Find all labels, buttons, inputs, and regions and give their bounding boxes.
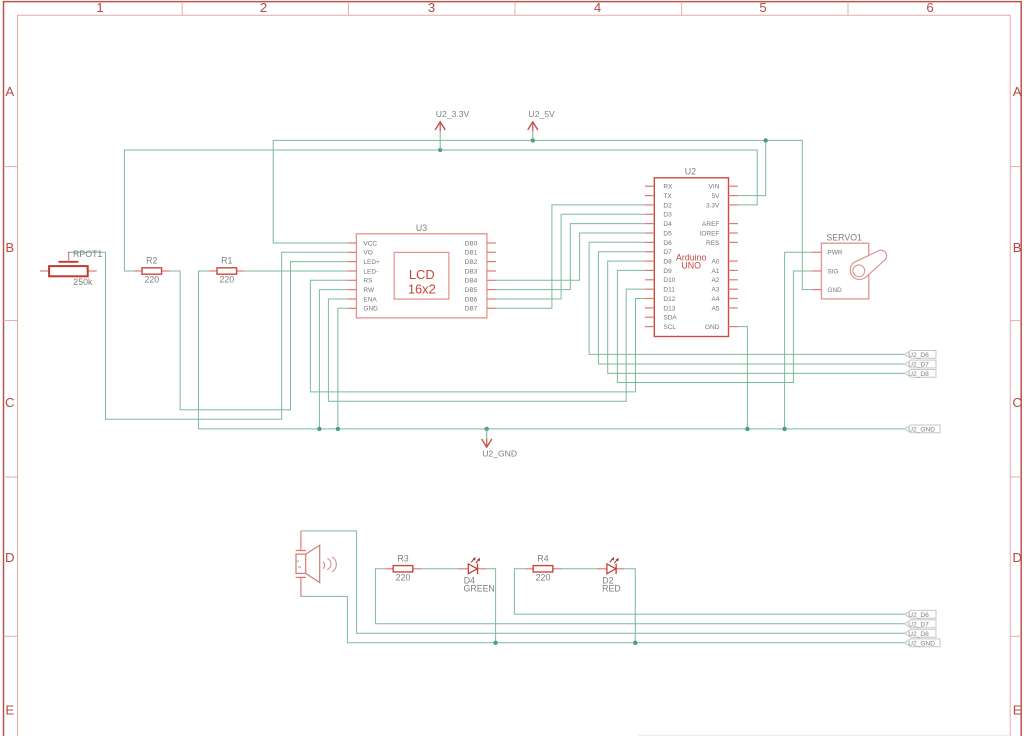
svg-text:U2_D8: U2_D8	[908, 371, 929, 378]
svg-text:D: D	[5, 550, 15, 565]
svg-text:A1: A1	[711, 268, 719, 275]
wire 5V bus with VCC branch and servo GND drop	[273, 140, 812, 289]
wire RPOT1 wiper to LCD VO	[72, 252, 348, 419]
wire R4 to D2 anode	[561, 568, 597, 570]
svg-text:D13: D13	[663, 305, 675, 312]
svg-text:U2_D7: U2_D7	[908, 362, 929, 369]
svg-text:U2_D8: U2_D8	[908, 631, 929, 638]
svg-text:U2_3.3V: U2_3.3V	[436, 109, 470, 119]
svg-text:A: A	[1013, 84, 1022, 99]
svg-text:DB0: DB0	[465, 240, 478, 247]
wire LCD ENA to U2 D11	[328, 289, 645, 401]
svg-text:D12: D12	[663, 296, 675, 303]
svg-text:DB7: DB7	[465, 306, 478, 313]
svg-text:R4: R4	[537, 554, 548, 564]
wire SERVO1 PWR to GND bus	[785, 252, 813, 429]
wire LCD RS to U2 D12	[310, 280, 645, 392]
wire R3 to D4 anode	[421, 568, 458, 570]
svg-text:GND: GND	[363, 306, 378, 313]
svg-text:220: 220	[536, 573, 551, 583]
net flag U2_D7 (lower)	[905, 620, 936, 628]
servo SERVO1	[812, 232, 886, 299]
svg-text:R3: R3	[397, 554, 408, 564]
wire LCD DB7 to U2 D2	[496, 205, 645, 308]
svg-text:DB6: DB6	[465, 296, 478, 303]
svg-text:E: E	[1013, 702, 1022, 717]
svg-text:LED-: LED-	[363, 268, 378, 275]
wire U2 D9 to SERVO1 SIG	[617, 270, 812, 382]
svg-text:U2_D6: U2_D6	[908, 612, 929, 619]
svg-text:VO: VO	[363, 250, 372, 257]
svg-text:LED+: LED+	[363, 259, 380, 266]
Arduino UNO U2	[645, 166, 738, 336]
junction at (747.4,428.9)	[745, 427, 749, 431]
svg-text:A0: A0	[711, 259, 719, 266]
svg-text:C: C	[5, 395, 15, 410]
net flag U2_D7 (upper)	[905, 360, 936, 368]
wire D2 cathode to GND bus	[625, 569, 635, 643]
svg-text:UNO: UNO	[681, 261, 701, 271]
net flag U2_D8 (lower)	[905, 629, 936, 637]
junction at (486.7,428.9)	[485, 427, 489, 431]
svg-text:5: 5	[759, 0, 766, 15]
svg-text:D11: D11	[663, 287, 675, 294]
svg-text:220: 220	[219, 275, 234, 285]
wire U2 D8 to upper U2_D8 flag	[608, 261, 905, 373]
wire U2 D7 to upper U2_D7 flag	[598, 252, 904, 364]
svg-text:R2: R2	[146, 256, 157, 266]
junction at (337.9,428.9)	[336, 427, 340, 431]
svg-text:D7: D7	[663, 249, 672, 256]
resistor R3 220	[385, 554, 421, 583]
svg-text:3.3V: 3.3V	[706, 202, 720, 209]
svg-text:U2_D7: U2_D7	[908, 621, 929, 628]
svg-text:B: B	[5, 240, 14, 255]
power symbol U2_3.3V	[435, 109, 469, 150]
svg-text:220: 220	[396, 573, 411, 583]
svg-text:D10: D10	[663, 277, 675, 284]
wire speaker bottom to lower U2_GND flag	[301, 596, 905, 642]
svg-text:RES: RES	[706, 240, 720, 247]
junction at (532.8,140.4)	[531, 138, 535, 142]
svg-text:DB4: DB4	[465, 278, 478, 285]
speaker	[295, 531, 336, 597]
svg-text:D5: D5	[663, 230, 672, 237]
net flag U2_GND (lower)	[905, 639, 940, 647]
svg-text:DB1: DB1	[465, 250, 478, 257]
svg-text:D9: D9	[663, 268, 672, 275]
svg-text:1: 1	[295, 560, 301, 563]
svg-text:GREEN: GREEN	[464, 583, 495, 593]
power symbol U2_5V	[528, 109, 555, 141]
junction at (495.6,642.8)	[493, 641, 497, 645]
junction at (440.2,150.0)	[438, 148, 442, 152]
wire LCD DB5 to U2 D4	[496, 224, 645, 290]
wire LCD DB4 to U2 D5	[496, 233, 645, 280]
svg-text:16x2: 16x2	[408, 282, 436, 297]
svg-text:1: 1	[96, 0, 103, 15]
svg-text:RX: RX	[663, 184, 673, 191]
net flag U2_D6 (lower)	[905, 610, 936, 618]
net flag U2_D6 (upper)	[905, 351, 936, 359]
svg-text:A: A	[5, 84, 14, 99]
wire R1 to LCD LED-	[245, 270, 347, 272]
wire speaker top to lower U2_D8 flag	[301, 531, 905, 633]
svg-text:D3: D3	[663, 212, 672, 219]
junction at (319.4,428.9)	[317, 427, 321, 431]
svg-text:3: 3	[428, 0, 435, 15]
resistor R4 220	[525, 554, 561, 583]
wire R2 to LCD LED+	[170, 262, 347, 410]
svg-text:5V: 5V	[711, 193, 720, 200]
potentiometer RPOT1 250k	[40, 249, 102, 287]
svg-text:4: 4	[594, 0, 601, 15]
svg-text:SIG: SIG	[827, 268, 838, 275]
svg-text:U2: U2	[685, 166, 696, 176]
ground symbol U2_GND	[482, 429, 517, 459]
svg-text:SDA: SDA	[663, 315, 677, 322]
wire GND bus from R1 to U2_GND flag	[199, 271, 905, 429]
svg-text:A4: A4	[711, 296, 719, 303]
svg-text:GND: GND	[705, 324, 720, 331]
svg-text:DB3: DB3	[465, 268, 478, 275]
svg-text:A2: A2	[711, 277, 719, 284]
svg-text:B: B	[1013, 240, 1022, 255]
svg-text:RED: RED	[602, 583, 621, 593]
svg-text:TX: TX	[663, 193, 672, 200]
svg-text:GND: GND	[827, 287, 842, 294]
svg-text:ENA: ENA	[363, 296, 377, 303]
LED D4 GREEN	[458, 557, 494, 593]
svg-text:U2_D6: U2_D6	[908, 352, 929, 359]
wire R3 to lower U2_D7 flag	[375, 569, 904, 624]
svg-text:2: 2	[297, 566, 303, 569]
svg-text:PWR: PWR	[827, 250, 842, 257]
junction at (784.6,428.9)	[782, 427, 786, 431]
net flag U2_D8 (upper)	[905, 370, 936, 378]
svg-text:R1: R1	[221, 256, 232, 266]
svg-text:RPOT1: RPOT1	[73, 249, 102, 259]
wire R4 to lower U2_D6 flag	[514, 569, 904, 615]
junction at (765.7,140.4)	[764, 138, 768, 142]
LCD module U3	[347, 223, 496, 318]
svg-text:U3: U3	[416, 223, 427, 233]
wire D4 cathode to GND bus	[487, 569, 496, 643]
wire LCD DB6 to U2 D3	[496, 214, 645, 299]
svg-text:E: E	[5, 702, 14, 717]
svg-text:250k: 250k	[73, 277, 93, 287]
resistor R2 220	[134, 256, 170, 285]
svg-text:2: 2	[260, 0, 267, 15]
svg-text:D8: D8	[663, 259, 672, 266]
svg-text:U2_GND: U2_GND	[482, 449, 517, 459]
svg-text:SERVO1: SERVO1	[826, 232, 862, 242]
svg-text:U2_GND: U2_GND	[908, 426, 935, 433]
svg-text:RW: RW	[363, 287, 375, 294]
svg-text:D6: D6	[663, 240, 672, 247]
wire 3.3V bus from R2 to U2 3.3V pin	[124, 150, 757, 271]
svg-text:DB5: DB5	[465, 287, 478, 294]
svg-text:VCC: VCC	[363, 240, 377, 247]
svg-text:A5: A5	[711, 305, 719, 312]
wire LCD RW to GND bus	[319, 290, 347, 429]
svg-text:6: 6	[926, 0, 933, 15]
svg-text:DB2: DB2	[465, 259, 478, 266]
wire 5V tap to U2 5V pin	[738, 140, 766, 195]
svg-text:U2_5V: U2_5V	[529, 109, 556, 119]
resistor R1 220	[209, 256, 245, 285]
svg-text:IOREF: IOREF	[700, 230, 720, 237]
svg-text:D: D	[1012, 550, 1022, 565]
svg-text:C: C	[1012, 395, 1022, 410]
svg-text:D4: D4	[663, 221, 672, 228]
svg-text:220: 220	[144, 275, 159, 285]
junction at (635.3,642.8)	[633, 641, 637, 645]
svg-text:D2: D2	[663, 202, 672, 209]
svg-text:RS: RS	[363, 278, 373, 285]
LED D2 RED	[597, 557, 625, 593]
svg-text:SCL: SCL	[663, 324, 676, 331]
svg-text:VIN: VIN	[709, 184, 720, 191]
net flag U2_GND (middle)	[905, 425, 940, 433]
svg-text:A3: A3	[711, 287, 719, 294]
wire U2 D6 to upper U2_D6 flag	[589, 242, 905, 354]
svg-text:LCD: LCD	[409, 267, 435, 282]
svg-text:U2_GND: U2_GND	[908, 640, 935, 647]
wire U2 GND to GND bus	[738, 327, 748, 429]
svg-text:AREF: AREF	[702, 221, 719, 228]
wire LCD GND to GND bus	[338, 308, 347, 429]
